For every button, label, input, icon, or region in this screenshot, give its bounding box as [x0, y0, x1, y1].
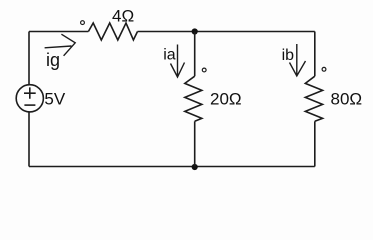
svg-text:ig: ig [46, 50, 60, 70]
svg-text:20Ω: 20Ω [210, 89, 242, 108]
wire: left vertical upper [28, 32, 30, 85]
svg-text:4Ω: 4Ω [112, 7, 134, 26]
current arrow ig [45, 34, 76, 56]
wire: bottom horizontal [29, 166, 315, 168]
node marker circle near 4ohm [81, 21, 85, 25]
svg-text:5V: 5V [44, 89, 65, 108]
node marker circle near 80ohm [322, 67, 326, 71]
wire: middle branch lower [194, 121, 196, 166]
current arrow ib [290, 44, 306, 76]
current arrow ia [171, 45, 185, 78]
voltage source minus sign [24, 104, 35, 106]
resistor R 20ohm zigzag [185, 76, 202, 121]
resistor R 80ohm zigzag [305, 76, 322, 121]
wire: top-right horizontal segment [138, 31, 315, 33]
node: junction dot bottom of middle branch [192, 164, 198, 170]
node marker circle near 20ohm [202, 68, 206, 72]
resistor R 4ohm zigzag [88, 23, 137, 40]
wire: left vertical lower [28, 112, 30, 167]
node: junction dot top of middle branch [192, 28, 198, 34]
svg-text:ia: ia [163, 47, 176, 64]
wire: middle branch upper [194, 32, 196, 77]
voltage source V1 5V circle [16, 85, 43, 112]
wire: right vertical upper [314, 32, 316, 77]
svg-text:80Ω: 80Ω [331, 89, 363, 108]
svg-text:ib: ib [282, 47, 295, 64]
voltage source plus sign [24, 87, 36, 98]
wire: right vertical lower [314, 121, 316, 166]
wire: top-left horizontal segment [29, 31, 88, 33]
